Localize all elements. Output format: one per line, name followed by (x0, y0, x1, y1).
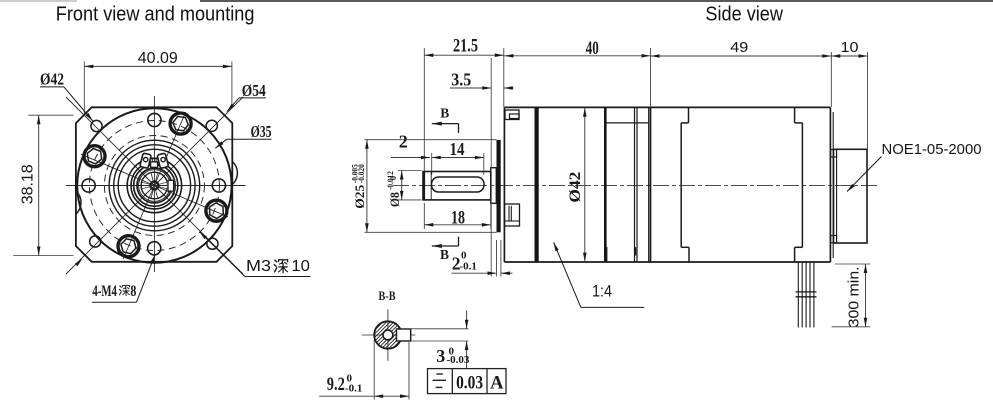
svg-text:38.18: 38.18 (20, 164, 37, 204)
front view: shaft center (150, 182, 158, 190)
side view: gearbox front joint (thick) (535, 107, 539, 262)
svg-text:49: 49 (730, 39, 748, 56)
svg-text:Ø25: Ø25 (353, 185, 367, 209)
side view: lead wires (797, 262, 799, 328)
dimension 300 min wire length (835, 263, 871, 265)
front view: four bolt holes on bolt circle (148, 113, 161, 126)
svg-text:18: 18 (451, 209, 465, 229)
section B-B keyway (397, 329, 411, 341)
front view: hex nut 2 (84, 146, 105, 167)
dimension diameter 8 -0.012 (398, 170, 422, 172)
svg-text:3: 3 (436, 346, 445, 366)
dimension 10 (867, 52, 869, 149)
svg-text:NOE1-05-2000: NOE1-05-2000 (882, 141, 982, 158)
dimension diameter 25 tolerance (365, 139, 497, 141)
svg-text:Ø42: Ø42 (567, 171, 584, 202)
front view: hex nut 1 (170, 113, 191, 134)
side view: main centerline (393, 184, 878, 186)
svg-text:300 min.: 300 min. (846, 266, 863, 327)
svg-text:-0.03: -0.03 (447, 354, 470, 366)
front view: horizontal / vertical / diagonal centerlines (66, 185, 246, 187)
svg-text:21.5: 21.5 (453, 37, 478, 57)
side view: shaft end edge and keyway end line (423, 172, 425, 200)
svg-text:40.09: 40.09 (138, 50, 178, 67)
side view: motor body outline (650, 107, 652, 262)
svg-text:1:4: 1:4 (592, 283, 612, 301)
front view: outer body circle (77, 108, 231, 262)
front view: spline spokes in shaft bore (159, 187, 167, 189)
side view: shaft shoulder boss (491, 168, 497, 204)
dimension 18 (423, 203, 425, 229)
side view: bottom clamp tab (505, 204, 520, 226)
svg-text:Ø54: Ø54 (242, 81, 266, 100)
svg-text:-0.020: -0.020 (356, 164, 366, 183)
side view: top clamp tab (505, 110, 519, 120)
front view: circlip ear tabs (151, 162, 158, 167)
side view: shaft keyway slot (432, 177, 485, 192)
svg-text:4-M4: 4-M4 (92, 283, 117, 300)
svg-text:10: 10 (291, 258, 310, 275)
front view: nut axis centerlines (123, 112, 186, 259)
front view: hub keyway notch (167, 180, 174, 192)
front view: shaft bore circles (139, 170, 171, 202)
dimension 2 0/-0.1 (496, 240, 498, 277)
front view: hex nut 4 (206, 200, 227, 221)
dimension 40.09 (front width) (83, 62, 85, 114)
front view: left ear bump (76, 191, 81, 214)
dimension diameter 42 (side view) (584, 108, 586, 262)
svg-text:2: 2 (399, 132, 408, 152)
svg-text:-0.012: -0.012 (385, 171, 395, 190)
svg-text:B: B (440, 105, 449, 120)
front view: bolt circle (dashed) (89, 121, 219, 251)
side view: gearbox outline (503, 107, 505, 262)
svg-text:10: 10 (841, 39, 859, 56)
svg-text:0.03: 0.03 (456, 374, 483, 394)
section B-B centerlines (387, 310, 389, 361)
front view: square flange outline (chamfered corners) (76, 107, 232, 261)
svg-text:-0.1: -0.1 (460, 260, 477, 272)
side view: flange face extension line (490, 58, 492, 277)
svg-text:Ø8: Ø8 (388, 192, 402, 207)
side view: encoder housing (834, 149, 868, 243)
dimension 21.5 (423, 48, 425, 171)
dimension 38.18 (front height) (28, 114, 73, 116)
dimension 9.2 0/-0.1 (373, 340, 375, 400)
dimension 40 (650, 48, 652, 107)
front view: circlip ring (134, 165, 176, 207)
front view: hex nut 3 (118, 236, 139, 257)
side view: gearbox recess lines (607, 122, 649, 124)
side view: gearbox rear joint (604, 107, 607, 262)
side view: clamp spacer plate (497, 140, 501, 232)
svg-text:9.2: 9.2 (327, 374, 345, 395)
front view: hub rings (127, 158, 181, 212)
svg-text:-0.1: -0.1 (345, 382, 362, 394)
svg-text:B-B: B-B (379, 289, 396, 303)
side view: gearbox ring joints (634, 107, 636, 262)
svg-text:Side view: Side view (705, 4, 783, 26)
feature control frame (symmetry 0.03 A) (428, 369, 507, 394)
front view: inner dashed circle (104, 136, 204, 236)
dimension 49 (830, 52, 832, 107)
dimension 3.5 (450, 87, 491, 89)
front view: gearbox pilot rings (109, 140, 200, 231)
svg-text:40: 40 (586, 39, 599, 59)
svg-text:Ø35: Ø35 (251, 122, 272, 141)
svg-text:8: 8 (130, 283, 136, 300)
side view: motor rear plate line (832, 112, 834, 258)
front view: four corner mounting holes (91, 120, 102, 131)
side view: motor lamination steps (688, 107, 690, 123)
drawing frame top border (0, 0, 77, 2)
dimension 3 0/-0.03 keyway (410, 328, 469, 330)
svg-text:Ø42: Ø42 (40, 70, 64, 89)
svg-text:3.5: 3.5 (451, 70, 471, 90)
svg-text:14: 14 (450, 139, 465, 159)
svg-text:M3: M3 (246, 258, 271, 275)
front view: right ear bump (232, 162, 237, 185)
dimension 14 (431, 153, 433, 175)
side view: output shaft outline (423, 172, 491, 200)
svg-text:B: B (440, 247, 449, 262)
svg-text:A: A (490, 374, 504, 394)
svg-text:Front view and mounting: Front view and mounting (56, 3, 255, 25)
